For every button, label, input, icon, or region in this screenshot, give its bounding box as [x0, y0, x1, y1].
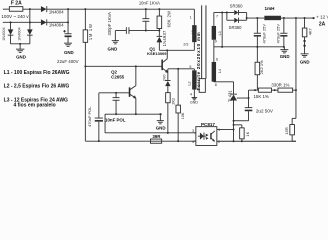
svg-text:2K2 1%: 2K2 1% [259, 60, 264, 74]
resistor R2 68K 2W (clamp) [157, 8, 172, 36]
resistor R3 4K7 (LED) [302, 17, 312, 40]
resistor R10 1K (opto series) [233, 124, 251, 142]
svg-text:GND: GND [16, 55, 26, 60]
resistor R1 1M 1W (startup) [83, 8, 93, 42]
svg-text:GND: GND [190, 101, 198, 105]
wire startup resistor to base node [84, 42, 86, 66]
svg-text:1K: 1K [245, 131, 250, 136]
svg-text:GND: GND [64, 50, 74, 55]
svg-text:6: 6 [216, 58, 218, 62]
svg-text:470uF 25V: 470uF 25V [261, 24, 266, 44]
resistor R9 15R [284, 118, 296, 141]
capacitor C6 470uF (after choke) [276, 17, 288, 47]
wire drive return bus [105, 113, 162, 115]
diode D7 SR360 (bottom) [229, 18, 242, 30]
ground secondary (output caps) [280, 46, 290, 59]
ground (drive bus) [156, 114, 166, 130]
wire bottom bus to 15R joint [292, 140, 296, 142]
svg-text:KSE13009: KSE13009 [147, 51, 167, 56]
wire aux pin5 to drive loop [168, 68, 195, 70]
LED D8 indicator [303, 40, 305, 54]
transformer T1 core Ferrite 20x20x10 mm [196, 5, 206, 92]
transistor Q1 KSE13009 [147, 47, 168, 73]
svg-text:1: 1 [190, 15, 192, 19]
wire rectifier tap to return [221, 13, 223, 48]
svg-text:L2: L2 [187, 82, 191, 86]
svg-text:470uF 25V: 470uF 25V [276, 24, 281, 44]
diode D6 SR360 (top) [230, 3, 243, 15]
wire output rail to divider [295, 17, 297, 118]
diode D4 1N4004 (down, right) [17, 27, 32, 43]
svg-text:8: 8 [215, 83, 217, 87]
resistor R7 15K 1% [249, 88, 272, 99]
svg-text:10K: 10K [181, 112, 185, 119]
svg-text:3: 3 [192, 129, 194, 133]
svg-text:GND: GND [108, 47, 118, 52]
diode D3 1N4004 (down, left) [2, 27, 13, 43]
svg-text:15K 1%: 15K 1% [253, 94, 268, 99]
svg-text:4 fios em paralelo: 4 fios em paralelo [13, 103, 55, 109]
svg-text:2u2 50V: 2u2 50V [256, 108, 274, 113]
diode D1 1N4004 (top bridge) [41, 6, 64, 14]
fuse F1 F 2A [9, 1, 23, 12]
svg-text:L3: L3 [218, 31, 222, 35]
svg-text:15R: 15R [284, 127, 289, 134]
svg-text:1N4004: 1N4004 [49, 23, 64, 28]
wire bridge bottom bus [11, 43, 30, 49]
wire AC neutral drop to lower diode [10, 21, 12, 29]
svg-text:1N4004: 1N4004 [2, 27, 6, 40]
svg-text:GND: GND [300, 59, 310, 64]
svg-text:C2655: C2655 [111, 74, 124, 79]
transformer T1 primary L1 winding [183, 9, 196, 46]
svg-text:10nF POL: 10nF POL [105, 118, 126, 123]
svg-text:7: 7 [216, 15, 218, 19]
svg-text:1mH: 1mH [265, 6, 276, 11]
capacitor C9 2u2 50V [233, 90, 274, 122]
transformer T1 secondary winding L4 [212, 40, 222, 87]
svg-text:100V ~ 240 v: 100V ~ 240 v [1, 14, 29, 19]
svg-text:470nF POL: 470nF POL [87, 106, 92, 127]
transformer T1 aux winding L2 [187, 65, 196, 98]
capacitor C1 22uF 400V (bulk) [63, 22, 71, 43]
svg-text:GND: GND [280, 54, 290, 59]
transistor Q2 C2655 [111, 65, 137, 114]
wire output rail [247, 17, 314, 19]
output terminal +12V 2A [312, 15, 328, 28]
wire AC neutral rail [3, 21, 68, 23]
wire aux pin8 to TL431 [214, 80, 234, 82]
svg-text:GND: GND [156, 125, 166, 130]
svg-text:SR360: SR360 [230, 3, 243, 8]
svg-text:9: 9 [215, 39, 217, 43]
svg-text:1M 1W: 1M 1W [88, 23, 93, 40]
ground (aux winding pin 4) [190, 98, 198, 105]
wire startup node down (primary return) [84, 66, 86, 141]
capacitor C5 470uF (before choke) [254, 17, 267, 48]
svg-text:L4: L4 [218, 69, 222, 73]
ground primary (bridge) [16, 49, 26, 59]
svg-text:5: 5 [189, 65, 191, 69]
svg-text:330R 1%: 330R 1% [271, 82, 289, 87]
inductor L5 1mH [264, 6, 281, 20]
svg-text:10nF 1KVA: 10nF 1KVA [139, 1, 160, 6]
svg-text:39R: 39R [152, 134, 161, 139]
ground (LED) [300, 54, 310, 65]
svg-text:2K2: 2K2 [172, 98, 176, 105]
svg-text:Ferrite 20x20x10 mm: Ferrite 20x20x10 mm [196, 32, 201, 91]
svg-text:PC817: PC817 [201, 122, 215, 127]
wire primary bottom rail [85, 140, 196, 142]
svg-text:+ 12 V: + 12 V [316, 15, 328, 20]
diode D2 1N4004 (second bridge) [41, 19, 64, 27]
ground (330pF) [108, 31, 119, 52]
capacitor C8 10nF POL (base series) [105, 92, 126, 123]
svg-text:1N4937: 1N4937 [162, 30, 167, 46]
svg-text:22uF 400V: 22uF 400V [57, 59, 79, 64]
svg-text:68K 2W: 68K 2W [167, 11, 172, 28]
svg-text:2A: 2A [319, 22, 326, 28]
resistor R5 10K (aux loop) [176, 69, 185, 142]
wire opto pin2 to bottom bus [217, 140, 296, 142]
svg-text:F 2A: F 2A [11, 1, 22, 7]
svg-text:4: 4 [192, 140, 194, 144]
wire AC line drop to lower diode [29, 8, 31, 29]
wire collector node to transformer pin 2/3 [159, 42, 194, 51]
resistor R11 2K2 1% (upper divider) [255, 47, 264, 90]
capacitor C3 10nF 1KVA [139, 1, 160, 32]
svg-text:1N4004: 1N4004 [49, 9, 64, 14]
svg-text:SR360: SR360 [229, 25, 242, 30]
ground (bulk cap) [64, 43, 74, 55]
svg-text:L1: L1 [191, 30, 195, 34]
svg-text:330pF 1KVA: 330pF 1KVA [107, 12, 112, 36]
svg-text:1N4004: 1N4004 [17, 27, 21, 40]
wire opto pin4 lead [194, 140, 196, 142]
capacitor C2 330pF 1KVA [107, 12, 159, 36]
wire AC line top rail [3, 8, 195, 10]
wire Q2 base [99, 92, 130, 94]
svg-text:1: 1 [218, 128, 220, 132]
wire bridge output vertical join [67, 8, 69, 23]
optocoupler U1 PC817 [192, 122, 220, 146]
svg-text:4: 4 [190, 93, 192, 97]
capacitor C7 470nF POL [87, 93, 103, 142]
transformer T1 secondary winding L3 [212, 12, 222, 43]
wire rectifier branch top [214, 12, 247, 14]
diode D9 2V0 (drive) [163, 69, 171, 93]
svg-text:2: 2 [218, 140, 220, 144]
resistor R8 330R 1% [271, 82, 296, 92]
wire base node bus [84, 65, 162, 67]
diode D5 1N4937 (clamp) [157, 30, 168, 50]
shunt regulator U2 TL431 [227, 82, 249, 142]
resistor R4 2K2 (drive) [166, 93, 176, 133]
svg-text:2/3: 2/3 [183, 43, 188, 47]
svg-text:L2 - 2,5 Espiras Fio 26 AWG: L2 - 2,5 Espiras Fio 26 AWG [4, 84, 70, 90]
wire drive bus to opto wire [105, 114, 196, 134]
resistor R6 39R (bottom rail) [150, 134, 161, 143]
wire secondary return (pin9 tap to output ground bus) [214, 46, 285, 48]
svg-text:4K7: 4K7 [307, 27, 312, 35]
svg-text:L1 - 100 Espiras Fio 26AWG: L1 - 100 Espiras Fio 26AWG [4, 70, 70, 76]
wire opto pin3 lead [194, 132, 196, 134]
wire opto pin1 to TL431 line [217, 128, 235, 130]
wire rectifier branch bottom [227, 13, 248, 21]
